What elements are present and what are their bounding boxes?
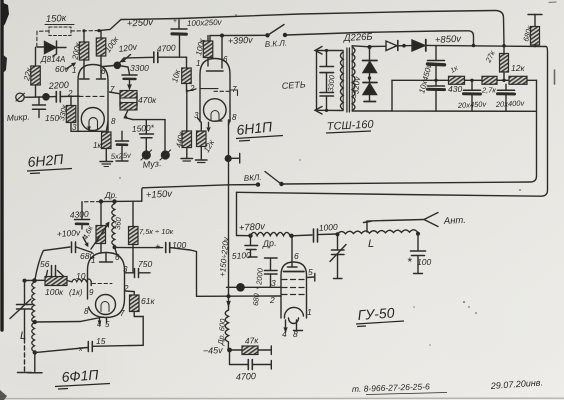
6N2P cathode circle (81, 108, 104, 131)
switch VKL top (265, 33, 269, 37)
coil tap to antenna (367, 220, 424, 233)
coil L PA tank (338, 230, 418, 234)
resistor 10k (158, 56, 187, 58)
variable cap tank (337, 234, 339, 250)
6N1P cathode arrow (208, 123, 210, 130)
transformer TSSh-160 primary (342, 51, 344, 111)
cap 10x450v (435, 46, 437, 60)
resistor 680k top right (528, 14, 542, 16)
diode D226B 1 (386, 41, 397, 51)
wire cathode 6F1P (35, 317, 103, 322)
choke Dr. +780 horizontal (251, 232, 291, 235)
resistor 47k (232, 349, 243, 351)
wire 440k drop (186, 90, 188, 132)
GU-50 anode bar (284, 271, 305, 273)
wire +150v rail to 6F1P (142, 185, 229, 201)
cap 56 (46, 271, 48, 280)
wire from cap100 output to cathode line (133, 247, 163, 249)
arrow 60v (66, 64, 75, 70)
terminal Muz 2 (164, 120, 166, 151)
transformer core (346, 48, 348, 112)
wire +850 rail (370, 45, 385, 47)
resistor 430 (392, 79, 449, 81)
grid line 680 cap (35, 247, 70, 281)
resistor 4,6k (100, 202, 102, 226)
mains terminals (315, 47, 322, 55)
arrow 120v (123, 55, 131, 62)
caps 3300 mains filter (326, 51, 328, 67)
terminal Muz 1 (142, 151, 150, 159)
choke Dr.600 bias (225, 310, 228, 349)
6N2P bottom wire (71, 130, 106, 132)
heater dashes (214, 90, 230, 92)
cap 1000 (313, 229, 315, 242)
wire right outer loop (237, 47, 548, 197)
cap 5100 (237, 235, 251, 237)
cap 100 antenna (417, 234, 419, 251)
coil L tank 6F1P (32, 282, 35, 353)
zener D814A (37, 46, 45, 48)
GU-50 pin4 pin8 (285, 320, 287, 331)
tube GU-50 envelope (281, 262, 307, 318)
choke 360 osc (112, 201, 115, 246)
resistor 200k (83, 31, 85, 42)
cap 4700 coupling (117, 57, 153, 65)
resistor 12k (509, 76, 527, 84)
wire anode node to cap1000 (292, 234, 313, 237)
cap 100x250v (178, 20, 180, 29)
cap 20x450v (471, 80, 473, 90)
wire anode drop to GU-50 (291, 236, 293, 267)
resistor 100k 6N1P (207, 36, 209, 41)
wire +780 drop (236, 192, 238, 235)
GU-50 pin5 stub (307, 276, 315, 279)
cap 4300 (81, 202, 83, 219)
wire grid line GU-50 (227, 286, 282, 288)
resistor 61k (125, 291, 135, 295)
wire right inner loop (283, 80, 537, 184)
diode D226B 2 (412, 40, 425, 51)
wire +390 stub to 6N1P (210, 34, 267, 36)
antenna (424, 213, 438, 227)
wire pin8 to central vertical (229, 120, 231, 126)
resistor 1k (102, 132, 112, 149)
resistor 330k (70, 97, 72, 106)
wire +250v top rail (99, 11, 504, 46)
central vertical +150-220v (228, 120, 230, 310)
resistor 22k (35, 48, 37, 67)
6F1P cathode circle (96, 295, 116, 315)
cap 750 (126, 272, 135, 274)
resistor 150k dashed (45, 24, 74, 26)
anode node dot (103, 66, 114, 67)
wire +390v switched line (286, 31, 474, 45)
arrow +100v (83, 237, 88, 246)
node -45v (227, 348, 232, 353)
cap 15 line (35, 348, 88, 353)
scan artifact right (554, 70, 556, 84)
wire cathode line GU-50 (197, 295, 282, 297)
6N1P cathode circle (204, 99, 227, 122)
junction dot mic node (42, 93, 50, 101)
tube 6N1P envelope (200, 59, 230, 122)
transformer secondary (351, 46, 353, 112)
mic input terminal (16, 93, 24, 101)
resistor 100k horizontal (25, 279, 46, 281)
switch VKL bottom (279, 182, 283, 186)
GU-50 cathode circle (284, 307, 303, 318)
cap 2200 (46, 96, 56, 98)
wire wiper to Muz caps (133, 119, 165, 121)
cap 2000 grid (270, 275, 272, 288)
resistors 470k pair (110, 92, 121, 94)
GU-50 grid dashes (282, 279, 305, 281)
cap 1500 (140, 133, 154, 135)
coil 10 (1k) (72, 279, 91, 282)
cap 5x25v (121, 131, 123, 140)
cap 4700 bias (230, 350, 248, 365)
resistor 27k (503, 46, 505, 54)
resistor 2,7k row (482, 76, 497, 84)
resistor 7,5k-10k (132, 202, 134, 227)
cap 3300 (117, 65, 129, 74)
tube 6N2P envelope (78, 65, 108, 132)
cap 150 (38, 97, 40, 105)
wire 12k drop (198, 118, 202, 131)
tube 6F1P envelope (88, 253, 125, 318)
scan edge left (0, 0, 3, 330)
wire 0V return L-shape (392, 80, 536, 111)
cap 20x400v (498, 89, 515, 91)
variable cap tank 6F1P (24, 281, 26, 304)
rectifier column diodes (369, 48, 371, 102)
resistor 100k anode (100, 31, 102, 38)
